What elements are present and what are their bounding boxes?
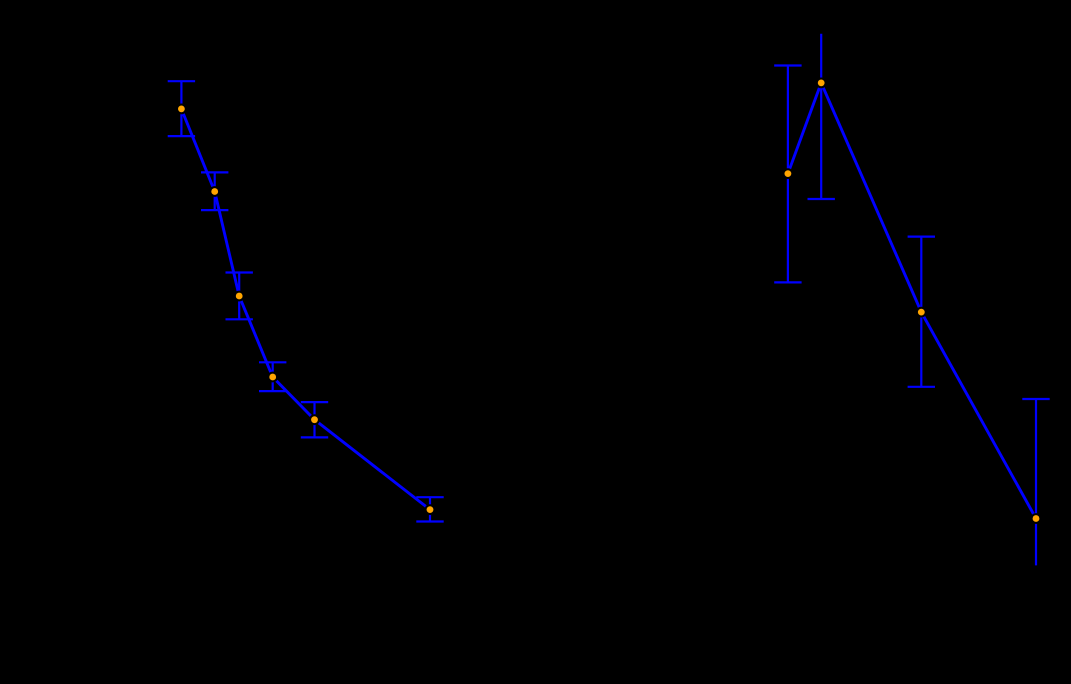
right plot: marker 4 [1031,513,1042,524]
left plot: error bar point 1 [168,81,195,136]
left plot: error bar point 6 [416,497,443,521]
left plot: marker 2 [209,186,220,197]
right plot: error bar point 2 (top clipped at axes edge) [808,34,835,199]
left plot: marker 5 [309,414,320,425]
left plot: marker 4 [267,372,278,383]
left plot: error bar point 4 [259,362,286,391]
left plot: series line [181,109,430,510]
left plot: error bar point 5 [301,402,328,437]
left plot: error bar point 3 [226,273,253,320]
left plot: marker 6 [425,504,436,515]
right plot: marker 2 [816,78,827,89]
right plot: error bar point 1 [774,66,801,283]
left plot: marker 1 [176,104,187,115]
right plot: series line [788,83,1036,519]
left plot: error bar point 2 [201,172,228,210]
right plot: error bar point 4 (bottom clipped at axes edge) [1022,399,1049,565]
right plot: error bar point 3 [908,237,935,387]
left plot: marker 3 [234,291,245,302]
right plot: marker 1 [783,168,794,179]
right plot: marker 3 [916,307,927,318]
